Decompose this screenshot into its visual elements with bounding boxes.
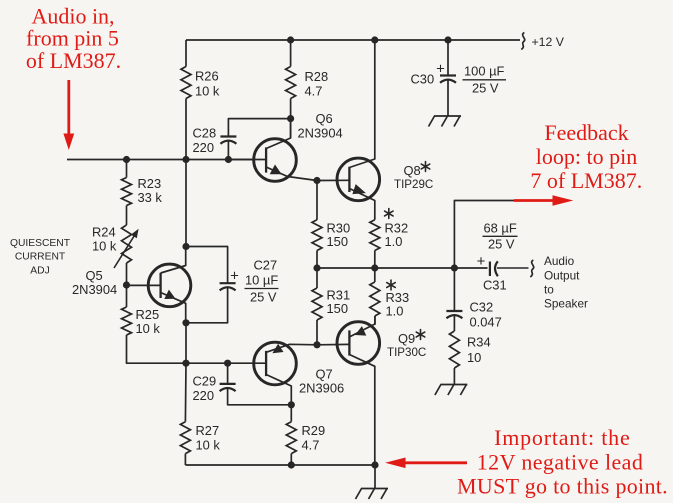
resistor R25 [122, 307, 132, 335]
node Q5 base [123, 281, 130, 288]
wire C30 to ground [447, 80, 449, 116]
svg-text:1.0: 1.0 [385, 234, 403, 249]
svg-text:220: 220 [193, 388, 215, 403]
svg-text:loop: to pin: loop: to pin [536, 144, 637, 169]
svg-text:Important: the: Important: the [494, 425, 630, 450]
wire R34 to ground [453, 368, 455, 384]
svg-text:CURRENT: CURRENT [15, 252, 66, 263]
svg-text:150: 150 [327, 301, 349, 316]
wire R30 feed [316, 181, 318, 220]
svg-text:Feedback: Feedback [544, 120, 628, 145]
node Q5 emitter / C27 bottom [182, 319, 189, 326]
svg-text:of LM387.: of LM387. [26, 48, 121, 73]
svg-text:TIP29C: TIP29C [394, 178, 433, 191]
node Q8 collector rail [371, 36, 378, 43]
svg-text:+: + [230, 268, 239, 285]
node base line C29 [224, 360, 231, 367]
node C28 / Q6 collector [287, 115, 294, 122]
resistor R29 [286, 422, 296, 454]
capacitor C31 68uF [489, 262, 491, 277]
svg-text:25 V: 25 V [472, 81, 499, 96]
wire C32 feed [453, 268, 455, 311]
svg-text:R25: R25 [136, 307, 160, 322]
wire R30 to output line [316, 251, 318, 269]
wire C30 feed [447, 40, 449, 76]
svg-text:100 µF: 100 µF [464, 64, 505, 79]
node R30/R31 [313, 264, 320, 271]
resistor R31 [312, 288, 322, 320]
resistor R28 [286, 67, 296, 99]
node input R23 [123, 156, 130, 163]
svg-text:0.047: 0.047 [470, 315, 502, 330]
wire bottom rail [185, 464, 375, 466]
svg-text:68 µF: 68 µF [484, 221, 517, 236]
svg-text:Q6: Q6 [316, 111, 333, 126]
break mark audio output [530, 260, 533, 277]
svg-text:10 k: 10 k [92, 239, 117, 254]
wire C27 bottom branch [186, 288, 228, 323]
transistor Q7 2N3906 [254, 342, 297, 385]
svg-text:10 k: 10 k [195, 84, 220, 99]
node input C28 [225, 156, 232, 163]
node Q6 emitter / Q8 base / R30 [313, 177, 320, 184]
node R28 top rail [287, 36, 294, 43]
wire Q5 base node to R25 [126, 285, 128, 307]
wire R28 bottom to C28 node [290, 99, 292, 138]
wire R26 top feed [185, 40, 187, 67]
node C29 / Q7 collector / R29 [288, 401, 295, 408]
svg-text:10: 10 [467, 350, 481, 365]
svg-text:150: 150 [327, 234, 349, 249]
ground C30 [434, 115, 461, 117]
svg-text:25 V: 25 V [250, 290, 277, 305]
svg-text:2N3906: 2N3906 [299, 381, 344, 396]
svg-text:C32: C32 [470, 300, 494, 315]
svg-text:Q5: Q5 [86, 268, 103, 283]
annotation audio in arrow [67, 80, 70, 136]
wire R26 bottom to input node [185, 99, 187, 160]
ground R34 [440, 384, 467, 386]
svg-text:C29: C29 [193, 374, 217, 389]
wire C28 top to collector node [228, 119, 290, 137]
capacitor C29 220 [220, 383, 236, 385]
svg-text:+: + [436, 61, 445, 78]
node C30 rail [444, 36, 451, 43]
svg-text:Speaker: Speaker [544, 297, 588, 311]
svg-text:12V negative lead: 12V negative lead [477, 449, 643, 474]
svg-text:10 k: 10 k [136, 321, 161, 336]
wire R27 to bottom rail [184, 454, 186, 465]
svg-text:1.0: 1.0 [386, 304, 404, 319]
svg-text:C30: C30 [411, 72, 435, 87]
wire +12V top rail [186, 39, 520, 41]
wire R25 bottom to Q7 base line [127, 335, 187, 363]
svg-text:R28: R28 [305, 69, 329, 84]
wire R29 to bottom rail [290, 454, 292, 465]
resistor R26 [181, 67, 191, 99]
svg-text:4.7: 4.7 [302, 438, 320, 453]
svg-text:R27: R27 [196, 423, 220, 438]
svg-text:25 V: 25 V [488, 237, 515, 252]
wire x186 to R27 [184, 363, 187, 422]
svg-text:MUST go to this point.: MUST go to this point. [457, 474, 668, 499]
transistor Q9 TIP30C [337, 322, 380, 365]
svg-text:Q8: Q8 [404, 163, 421, 178]
svg-text:Audio in,: Audio in, [31, 3, 114, 28]
svg-text:4.7: 4.7 [305, 84, 323, 99]
resistor R34 [449, 331, 459, 368]
svg-text:R26: R26 [195, 69, 219, 84]
node bottom rail R29 [288, 461, 295, 468]
svg-text:2N3904: 2N3904 [72, 282, 117, 297]
svg-text:C27: C27 [254, 258, 278, 273]
svg-text:ADJ: ADJ [30, 266, 49, 277]
capacitor C30 100uF [440, 74, 456, 76]
wire C27 top branch [186, 247, 228, 284]
svg-text:+12 V: +12 V [532, 35, 565, 49]
svg-text:2N3904: 2N3904 [298, 126, 343, 141]
svg-text:+: + [477, 253, 486, 270]
wire R28 top feed [290, 40, 292, 67]
svg-text:R23: R23 [138, 176, 162, 191]
svg-text:220: 220 [193, 140, 215, 155]
svg-text:Audio: Audio [544, 254, 575, 268]
svg-text:Q7: Q7 [316, 367, 333, 382]
capacitor C28 220 [220, 135, 236, 137]
svg-text:Q9: Q9 [398, 331, 415, 346]
wire Q7 base line [186, 362, 231, 364]
annotation important arrow [400, 461, 467, 464]
node output feedback [451, 264, 458, 271]
svg-text:Output: Output [544, 269, 580, 283]
wire R31 feed [316, 268, 318, 288]
wire C29 bottom to R29 node [228, 388, 292, 405]
capacitor C27 10uF [220, 282, 236, 284]
svg-text:33 k: 33 k [138, 190, 163, 205]
wire R23 to R24 [126, 206, 128, 226]
wire R33 feed [374, 268, 376, 282]
svg-text:7 of LM387.: 7 of LM387. [530, 168, 642, 193]
svg-text:C28: C28 [193, 126, 217, 141]
wire Q5 collector up to input node [185, 160, 187, 247]
svg-text:R34: R34 [467, 335, 491, 350]
annotation feedback arrow [514, 199, 555, 202]
resistor R33 [370, 282, 380, 316]
wire R33 to Q9 emitter [374, 316, 376, 325]
wire audio input line [67, 159, 254, 161]
svg-text:10 k: 10 k [196, 438, 221, 453]
node input R26/Q5 chain [182, 156, 189, 163]
wire R24 to Q5 base node [126, 263, 128, 285]
resistor R30 [312, 220, 322, 251]
node Q7 emitter / Q9 base / R31 [313, 341, 320, 348]
potentiometer R24 [122, 225, 132, 263]
svg-text:QUIESCENT: QUIESCENT [10, 238, 71, 249]
svg-text:10 µF: 10 µF [245, 273, 278, 288]
node R32/R33 [371, 264, 378, 271]
transistor Q6 2N3904 [254, 139, 297, 182]
resistor R32 [370, 220, 380, 251]
svg-text:TIP30C: TIP30C [387, 346, 426, 359]
svg-text:to: to [544, 283, 554, 297]
resistor R27 [180, 422, 190, 454]
svg-text:C31: C31 [483, 278, 507, 293]
capacitor C32 0.047 [446, 310, 462, 312]
node Q5 collector / C27 top [182, 243, 189, 250]
node bottom rail ground point [371, 461, 378, 468]
ground bottom [361, 488, 388, 490]
asterisk R32 [388, 209, 390, 219]
svg-text:R29: R29 [302, 423, 326, 438]
wire R31 to Q9 base node [316, 320, 318, 345]
wire ground stub [374, 465, 376, 488]
wire C32 to R34 [453, 315, 455, 331]
node base line x186 [182, 360, 189, 367]
resistor R23 [122, 178, 132, 206]
wire R32 to output line [374, 251, 376, 269]
wire input to R23 [126, 160, 128, 178]
wire C29 feed [227, 363, 229, 384]
wire feedback loop [454, 201, 517, 269]
asterisk R33 [390, 280, 392, 290]
break mark +12V rail end [521, 33, 524, 50]
wire R29 feed [290, 405, 292, 422]
wire output node line [317, 267, 488, 269]
transistor Q8 TIP29C [337, 158, 380, 201]
svg-text:R24: R24 [92, 225, 116, 240]
wire Q5 emitter down to base line [185, 323, 187, 363]
wire C28 to input [227, 141, 229, 160]
transistor Q5 2N3904 [148, 264, 191, 307]
